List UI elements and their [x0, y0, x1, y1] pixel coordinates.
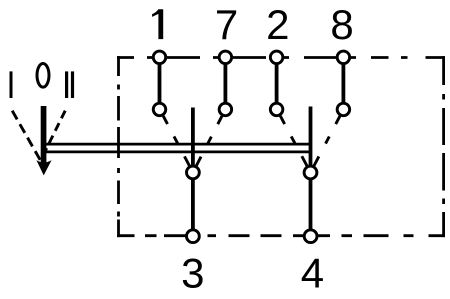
svg-text:3: 3 — [181, 250, 204, 297]
svg-text:7: 7 — [215, 1, 238, 48]
svg-text:2: 2 — [266, 1, 289, 48]
svg-text:4: 4 — [301, 250, 324, 297]
svg-text:8: 8 — [330, 1, 353, 48]
